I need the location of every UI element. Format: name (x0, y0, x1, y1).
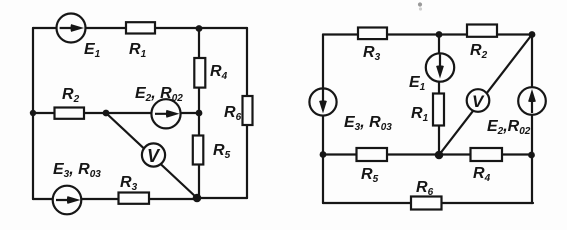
wire: left circuit inner right vertical (198, 28, 200, 198)
svg-text:E3, R03: E3, R03 (53, 161, 101, 180)
svg-text:R4: R4 (210, 63, 228, 82)
source E1 (left circuit) (57, 14, 86, 43)
source E3,R03 (left circuit) (53, 186, 82, 215)
junction node (left circuit, bottom inner) (193, 194, 202, 203)
svg-text:V: V (147, 146, 161, 166)
source E2,R02 (left circuit) (151, 99, 180, 128)
wire: left circuit middle row (33, 112, 199, 114)
arrow of source E2 (left circuit) (155, 110, 180, 118)
arrow of source E1 (left circuit) (60, 24, 85, 32)
junction node (left circuit, middle left) (30, 110, 36, 116)
wire: left circuit top (33, 27, 247, 29)
wire: right circuit left vertical (322, 35, 324, 204)
wire: left circuit left vertical (32, 28, 34, 199)
wire: right circuit top (323, 33, 532, 35)
svg-text:R1: R1 (129, 41, 147, 60)
junction node (left circuit, middle inner) (196, 110, 203, 117)
wire: right circuit right vertical (531, 35, 533, 204)
wire: right circuit bottom (323, 202, 533, 204)
source E2,R02 (right circuit) (518, 87, 546, 115)
svg-text:R5: R5 (213, 142, 231, 161)
svg-text:E2, R02: E2, R02 (135, 85, 183, 104)
resistor R6 (left circuit) (243, 96, 253, 125)
wire: left circuit outer right vertical (246, 28, 248, 198)
svg-text:R2: R2 (62, 86, 80, 105)
wire: right circuit middle row (323, 153, 532, 155)
svg-text:R3: R3 (120, 174, 138, 193)
resistor R4 (right circuit) (471, 148, 503, 161)
arrow of source E3 (right circuit), pointing down (319, 90, 327, 114)
wire: right circuit diagonal (439, 35, 532, 156)
svg-text:E1: E1 (84, 41, 101, 60)
arrow of source E2 (right circuit), pointing up (528, 89, 536, 113)
wire: left circuit bottom (33, 198, 197, 200)
junction node (right circuit, middle left) (320, 151, 327, 158)
junction node (right circuit, top right corner) (529, 31, 536, 38)
scan speck (418, 2, 422, 6)
wire: right circuit center branch (438, 35, 440, 156)
svg-text:R2: R2 (470, 42, 488, 61)
resistor R5 (right circuit) (357, 148, 388, 161)
resistor R4 (left circuit) (194, 58, 205, 88)
wire: left circuit diagonal to voltmeter node (106, 113, 197, 198)
svg-text:R6: R6 (416, 179, 434, 198)
svg-text:R1: R1 (411, 105, 429, 124)
resistor R5 (left circuit) (193, 136, 204, 165)
junction node (right circuit, middle center) (435, 151, 444, 160)
resistor R2 (left circuit) (55, 108, 85, 119)
source E1 (right circuit) (426, 53, 454, 81)
resistor R1 (right circuit) (433, 94, 444, 126)
source E3,R03 (right circuit) (309, 88, 336, 115)
resistor R2 (right circuit) (467, 25, 497, 37)
resistor R3 (right circuit) (358, 28, 387, 40)
resistor R6 (right circuit) (411, 197, 442, 210)
junction node (right circuit, middle right) (528, 152, 535, 159)
junction node (left circuit, top inner) (196, 25, 203, 32)
svg-text:R4: R4 (473, 165, 491, 184)
resistor R3 (left circuit) (119, 193, 150, 204)
voltmeter V (right circuit) (467, 89, 490, 112)
svg-text:R3: R3 (363, 44, 381, 63)
junction node (left circuit, diagonal tap) (103, 110, 110, 117)
junction node (right circuit, top center) (436, 31, 443, 38)
svg-text:E3, R03: E3, R03 (344, 114, 392, 133)
svg-text:R5: R5 (361, 166, 379, 185)
svg-text:E1: E1 (409, 74, 426, 93)
voltmeter V (left circuit) (142, 143, 165, 166)
arrow of source E3 (left circuit) (56, 196, 81, 204)
svg-text:V: V (472, 92, 485, 111)
arrow of source E1 (right circuit), pointing down (436, 55, 444, 79)
scan smudge (419, 7, 422, 10)
resistor R1 (left circuit) (126, 22, 155, 33)
svg-text:R6: R6 (224, 104, 242, 123)
wire: left circuit bottom right segment (197, 197, 247, 199)
svg-text:E2,R02: E2,R02 (487, 118, 531, 137)
